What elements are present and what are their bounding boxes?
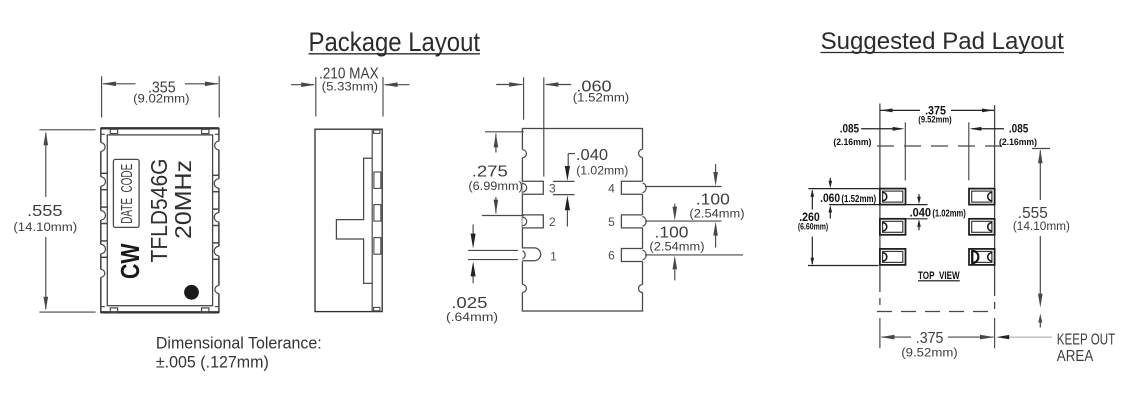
view 4 dimension .060 (1.52mm): [808, 188, 880, 190]
view: view1 left edge bottom corner castellation: [99, 269, 103, 277]
view1 corner stub tick: [215, 133, 219, 135]
pin row 6 extension line: [645, 254, 743, 256]
view1 corner stub tick: [101, 133, 105, 135]
view 4: keep-out area right edge: [994, 105, 996, 289]
svg-text:.060: .060: [820, 191, 840, 205]
pin 4 outer castellation arc: [643, 183, 647, 193]
pin pad 4 (right side): [621, 181, 644, 194]
view 4 dimension .375 bottom: line with arrows: [881, 335, 895, 340]
view 1: pin 1 indicator dot: [184, 285, 199, 300]
pin pad 5 (right side): [621, 215, 644, 228]
view1 corner notch on top edge: [202, 129, 209, 133]
dimension .555 (14.10mm) extension lines: [39, 129, 95, 131]
svg-text:(14.10mm): (14.10mm): [13, 220, 77, 234]
pin 5 outer castellation arc: [643, 217, 647, 227]
pin row 5 extension line: [645, 220, 722, 222]
view 4 dimension .375 top: line with arrows: [880, 109, 920, 111]
dimension .040 (1.02mm) leader and arrows: [568, 153, 575, 155]
svg-text:(9.52mm): (9.52mm): [918, 115, 951, 126]
dimension .210 MAX (5.33mm) extension lines: [315, 77, 317, 117]
pin pad 3 (left side): [522, 181, 543, 194]
svg-text:TFLD546G: TFLD546G: [146, 159, 172, 263]
svg-text:(2.54mm): (2.54mm): [649, 239, 704, 253]
dimension .060 arrows (outside): [496, 84, 522, 86]
dimension .355 (9.02mm) dimension line and arrows: [103, 83, 136, 85]
dimension .210 MAX arrows (outside): [291, 84, 314, 86]
svg-text:2: 2: [549, 215, 556, 229]
view1 corner notch on bottom edge: [110, 308, 117, 312]
view: view1 left edge castellation at y=249.1: [99, 244, 103, 253]
pin pad 2 (left side): [522, 215, 543, 228]
view 2: side pad at y=237.6: [374, 238, 381, 255]
svg-text:Package Layout: Package Layout: [309, 27, 481, 57]
svg-text:(6.99mm): (6.99mm): [468, 179, 523, 193]
view1 corner stub tick: [101, 306, 105, 308]
dimension .100 (rows 5-6) arrows: [674, 204, 676, 208]
svg-text:(9.52mm): (9.52mm): [901, 346, 957, 360]
view: view1 right edge top corner castellation: [217, 141, 221, 150]
svg-text:Dimensional Tolerance:: Dimensional Tolerance:: [156, 334, 322, 353]
view: view3 right edge bottom corner castellation: [640, 285, 644, 293]
pin pad 1 (left side, rounded): [521, 249, 536, 262]
view: view1 right edge bottom corner castellation: [217, 286, 221, 294]
dimension .555 (14.10mm) dimension line and arrows: [45, 133, 47, 197]
view 2: body/lid step profile: [336, 158, 372, 283]
svg-text:20MHz: 20MHz: [170, 160, 196, 239]
view 4: right pad row bottom (pin 1, bold mark): [969, 249, 995, 265]
view 4 dimension .260 (6.60mm): [811, 190, 813, 209]
view: view1 right edge castellation at y=251.1: [217, 246, 221, 255]
svg-text:(1.02mm): (1.02mm): [932, 209, 965, 220]
view 4: left pad row 3: [880, 249, 906, 265]
dimension .275 (6.99mm) extension lines: [485, 131, 524, 133]
svg-text:DATE CODE: DATE CODE: [119, 164, 136, 224]
view: view1 left edge castellation at y=181.5: [99, 177, 103, 186]
view 4 dimension .040 (1.02mm): [906, 204, 928, 206]
view 4: KEEP OUT AREA leader line: [1003, 336, 1052, 338]
dimension .025 arrows (outside): [472, 225, 474, 235]
pin row 4 extension line: [645, 186, 722, 188]
view 4 dimension .375 bottom: extension lines: [879, 318, 881, 348]
view: view1 left edge castellation at y=215.3: [99, 211, 103, 220]
svg-text:(6.60mm): (6.60mm): [798, 222, 828, 232]
svg-text:.040: .040: [910, 205, 932, 219]
svg-text:±.005 (.127mm): ±.005 (.127mm): [156, 352, 269, 371]
svg-text:6: 6: [608, 249, 615, 263]
view1 corner notch on top edge: [110, 129, 117, 133]
svg-text:Suggested Pad Layout: Suggested Pad Layout: [821, 28, 1064, 55]
view: view3 right edge top corner castellation: [640, 149, 644, 157]
svg-text:4: 4: [608, 181, 615, 195]
svg-text:(9.02mm): (9.02mm): [133, 92, 189, 106]
svg-text:5: 5: [608, 215, 615, 229]
view 4: keep-out area bottom dashed edge: [877, 311, 997, 313]
view 2: side pad at y=204.6: [374, 205, 381, 222]
svg-text:(1.02mm): (1.02mm): [576, 164, 628, 178]
svg-text:3: 3: [549, 181, 556, 195]
pin 1 castellation arc: [522, 251, 525, 259]
view 4: keep-out area left edge: [879, 104, 881, 286]
view 4: left pad row 1: [880, 189, 906, 205]
svg-text:.085: .085: [840, 124, 860, 136]
dimension .275 dimension line and arrows: [495, 134, 497, 153]
svg-text:.040: .040: [576, 147, 608, 164]
svg-text:.375: .375: [916, 330, 944, 347]
view 2: corner pad bottom: [374, 307, 380, 310]
pin 6 outer castellation arc: [643, 250, 647, 260]
svg-text:KEEP OUT: KEEP OUT: [1057, 332, 1116, 349]
view: view1 right edge castellation at y=217.3: [217, 213, 221, 222]
view 1: package top view outline (outer): [101, 128, 219, 312]
dimension .100 (rows 4-5) arrows: [715, 164, 717, 172]
view1 corner stub tick: [215, 306, 219, 308]
view 2: corner pad top: [374, 130, 380, 133]
svg-text:(14.10mm): (14.10mm): [1013, 219, 1070, 233]
view 3: bottom view body outline: [522, 129, 642, 312]
view: view1 left edge top corner castellation: [99, 143, 103, 152]
view: view3 left edge bottom corner castellation: [520, 284, 524, 292]
svg-text:TOP VIEW: TOP VIEW: [918, 270, 960, 282]
view: view1 right edge castellation at y=183.5: [217, 179, 221, 188]
svg-text:1: 1: [550, 250, 557, 264]
view 4: right pad row 6: [969, 189, 995, 205]
view 2: side view outer outline: [315, 129, 382, 311]
view 4 dimension .555 (14.10mm): [1032, 148, 1050, 150]
view 2: pad strip inner edge line: [371, 129, 373, 311]
view 1: DATE CODE box: [113, 159, 139, 227]
svg-text:(5.33mm): (5.33mm): [322, 80, 378, 94]
dimension .355 (9.02mm) extension lines: [101, 76, 103, 117]
svg-text:CW: CW: [115, 243, 145, 279]
svg-text:.085: .085: [1009, 124, 1029, 136]
view 4: package outline top dashed line: [877, 145, 1005, 147]
view: view3 left edge top corner castellation: [520, 150, 524, 158]
view 4: pad inner-edge extension lines (.085): [904, 122, 906, 180]
svg-text:(2.16mm): (2.16mm): [999, 137, 1037, 148]
pin 3 castellation arc: [522, 184, 526, 193]
dimension .060 (1.52mm) extension lines: [523, 77, 525, 119]
view1 corner notch on bottom edge: [202, 308, 209, 312]
pin 2 castellation arc: [522, 217, 526, 226]
svg-text:(2.16mm): (2.16mm): [833, 137, 871, 148]
svg-text:(.64mm): (.64mm): [446, 310, 498, 324]
svg-text:AREA: AREA: [1057, 348, 1094, 365]
dimension .025 (.64mm) reference lines: [468, 249, 518, 251]
svg-text:.555: .555: [27, 203, 63, 220]
svg-text:(1.52mm): (1.52mm): [841, 194, 876, 205]
view 4: right pad row 5: [969, 219, 995, 235]
svg-text:(1.52mm): (1.52mm): [573, 91, 629, 105]
view 1: package inner lid outline: [107, 135, 212, 306]
view 2: side pad at y=172.0: [374, 172, 381, 188]
pin pad 6 (right side): [621, 249, 644, 262]
svg-text:(2.54mm): (2.54mm): [689, 207, 744, 221]
view 4: left pad row 2: [880, 219, 906, 235]
